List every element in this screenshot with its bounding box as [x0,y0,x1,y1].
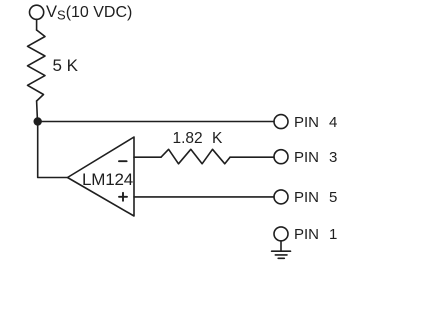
op-amp U1 LM124 [68,137,135,216]
label PIN 1 [294,226,337,243]
label LM124 [82,170,133,189]
svg-text:PIN: PIN [294,226,319,243]
label PIN 4 [294,114,337,131]
resistor R1 5K [28,30,46,101]
svg-text:LM124: LM124 [82,170,133,189]
terminal Vs [29,5,43,19]
svg-text:PIN: PIN [294,189,319,206]
wire Vs to resistor [36,19,38,30]
plus input label [119,193,127,201]
label 1.82 K [173,130,223,147]
resistor R2 1.82K [161,149,230,164]
wire node down to op-amp input [38,122,68,178]
node junction [34,118,41,125]
svg-text:1.82 K: 1.82 K [173,130,223,147]
label Vs (10 VDC) [46,3,132,23]
svg-text:1: 1 [329,226,337,243]
terminal PIN 3 [274,150,288,164]
label 5 K [53,56,79,75]
svg-text:PIN: PIN [294,149,319,166]
terminal PIN 1 [274,227,288,241]
wire node to PIN 4 [38,121,274,123]
wire op-amp plus to PIN 5 [134,196,274,198]
svg-text:4: 4 [329,114,337,131]
svg-text:PIN: PIN [294,114,319,131]
svg-text:5: 5 [329,189,337,206]
terminal PIN 4 [274,115,288,129]
label PIN 5 [294,189,337,206]
minus input label [119,160,127,162]
wire PIN 1 to ground [280,241,282,251]
svg-text:3: 3 [329,149,337,166]
terminal PIN 5 [274,190,288,204]
wire op-amp to resistor R2 [134,156,161,158]
wire resistor to node [36,101,39,122]
label PIN 3 [294,149,337,166]
svg-text:5 K: 5 K [53,56,79,75]
wire resistor R2 to PIN 3 [230,156,274,158]
ground [272,251,291,258]
